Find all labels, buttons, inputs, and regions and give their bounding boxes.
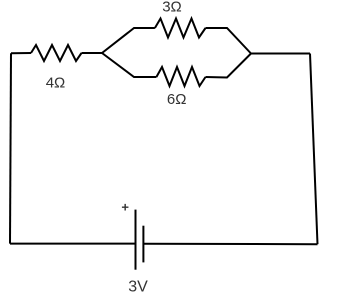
svg-text:3Ω: 3Ω	[162, 0, 182, 16]
wire node B to top-right corner	[251, 53, 310, 55]
svg-text:3V: 3V	[128, 279, 148, 296]
wire right vertical	[310, 54, 318, 245]
wire R1 to node A	[82, 52, 103, 54]
resistor R1 4Ω	[31, 45, 82, 61]
wire branch top-left diagonal	[102, 28, 155, 53]
battery V1 long plate	[135, 210, 137, 270]
wire branch top-right diagonal	[206, 28, 252, 54]
wire branch bottom-right diagonal	[206, 54, 252, 78]
wire bottom left	[10, 243, 136, 245]
resistor R2 3Ω	[155, 19, 206, 38]
wire branch bottom-left diagonal	[102, 53, 156, 77]
svg-text:+: +	[121, 200, 129, 215]
svg-text:4Ω: 4Ω	[46, 75, 66, 92]
battery V1 short plate	[142, 226, 144, 263]
wire left vertical	[10, 53, 11, 243]
wire top-left	[11, 52, 31, 54]
wire bottom right	[143, 243, 317, 245]
svg-text:6Ω: 6Ω	[167, 91, 187, 108]
resistor R3 6Ω	[156, 67, 205, 86]
